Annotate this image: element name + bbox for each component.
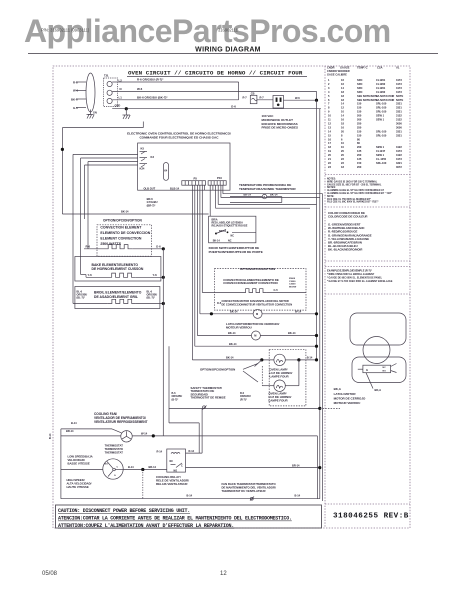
- svg-text:3122: 3122: [396, 114, 402, 118]
- svg-text:WIRING DIAGRAM: WIRING DIAGRAM: [195, 47, 261, 54]
- svg-text:CL1262: CL1262: [376, 82, 386, 86]
- svg-text:125: 125: [357, 157, 362, 161]
- svg-text:3122: 3122: [396, 118, 402, 122]
- svg-text:MOTEUR VERROU: MOTEUR VERROU: [334, 401, 361, 405]
- svg-text:LAMPE FOUR: LAMPE FOUR: [270, 375, 290, 379]
- svg-text:B-14: B-14: [295, 494, 301, 498]
- svg-text:(BL-7)*: (BL-7)*: [147, 297, 155, 300]
- svg-text:Y-6: Y-6: [153, 273, 158, 277]
- svg-text:TEMP.°C: TEMP.°C: [357, 66, 368, 70]
- svg-text:TERMOSTATO: TERMOSTATO: [105, 447, 123, 451]
- svg-text:NOTE:: NOTE:: [327, 196, 334, 198]
- svg-text:K5: K5: [141, 146, 145, 150]
- svg-text:R-6 OR/G/BU (R-7)*: R-6 OR/G/BU (R-7)*: [137, 78, 164, 82]
- svg-text:BR-14: BR-14: [292, 463, 300, 467]
- svg-text:PUERTA/INTERRUPTEUR DE PORTE: PUERTA/INTERRUPTEUR DE PORTE: [209, 250, 263, 254]
- svg-text:P5: P5: [194, 176, 198, 180]
- svg-text:CB: CB: [251, 92, 255, 95]
- svg-text:ELEMENT CONVECTION: ELEMENT CONVECTION: [100, 236, 142, 240]
- svg-text:200: 200: [357, 153, 362, 157]
- svg-text:W-14: W-14: [141, 432, 148, 436]
- svg-text:THERMOSTAT: THERMOSTAT: [105, 444, 124, 448]
- svg-text:CONVECTION ELEMENT: CONVECTION ELEMENT: [100, 226, 142, 230]
- svg-text:COMMANDE FOUR ELECTRONIQUE ED: COMMANDE FOUR ELECTRONIQUE ED CHASIS GAC: [139, 136, 219, 140]
- svg-text:(R-7)*: (R-7)*: [240, 398, 247, 401]
- svg-text:C3000: C3000: [289, 284, 296, 286]
- svg-text:150: 150: [357, 110, 362, 114]
- svg-text:Y-6: Y-6: [88, 273, 93, 277]
- svg-text:3173: 3173: [396, 90, 402, 94]
- svg-text:THERMOSTAT DU VENTILATEUR: THERMOSTAT DU VENTILATEUR: [222, 489, 266, 493]
- svg-text:FILS CDE UL 750 600V EL MARKED: FILS CDE UL 750 600V EL MARKED BT°: [327, 198, 371, 201]
- svg-text:(BL-7)*: (BL-7)*: [77, 297, 85, 300]
- svg-text:M: M: [256, 312, 258, 316]
- svg-text:ELEMENTO DE CONVECCION: ELEMENTO DE CONVECCION: [100, 231, 150, 235]
- svg-text:PRISE DE MICRO-ONDES: PRISE DE MICRO-ONDES: [262, 126, 299, 130]
- svg-text:SRC: SRC: [357, 82, 363, 86]
- svg-text:BK-14: BK-14: [244, 192, 252, 196]
- svg-text:250: 250: [357, 125, 362, 129]
- svg-text:P10: P10: [217, 176, 222, 180]
- svg-text:CONVECTION MOTOR FAN/VENTILADO: CONVECTION MOTOR FAN/VENTILADOR DEL MOTO…: [222, 299, 289, 303]
- svg-text:* GAUGE DE 90C 600V EL. ELEMEN: * GAUGE DE 90C 600V EL. ELEMENTO DE PANE…: [327, 277, 383, 280]
- svg-text:OPTION/OPCION/OPTION: OPTION/OPCION/OPTION: [200, 368, 235, 372]
- svg-text:SEE NOTE/NOTA: SEE NOTE/NOTA: [357, 98, 378, 102]
- svg-text:L1: L1: [119, 95, 123, 99]
- svg-text:200: 200: [357, 145, 362, 149]
- svg-text:G: G: [366, 368, 368, 372]
- svg-text:DE ASADO/ELEMENT GRIL: DE ASADO/ELEMENT GRIL: [94, 295, 138, 299]
- svg-text:R-7: R-7: [260, 96, 265, 100]
- svg-text:2500 WATTS: 2500 WATTS: [100, 242, 121, 246]
- svg-text:200: 200: [357, 165, 362, 169]
- svg-text:OPTION/OPCION/OPTION: OPTION/OPCION/OPTION: [240, 267, 275, 271]
- svg-text:EXAMPLE/EJEMPLO/EXEMPLE (R-7)*: EXAMPLE/EJEMPLO/EXEMPLE (R-7)*: [327, 270, 372, 273]
- svg-text:NC: NC: [228, 240, 232, 243]
- svg-text:25000: 25000: [289, 278, 296, 280]
- svg-text:BK,A: BK,A: [375, 388, 382, 392]
- svg-text:LA NOTA/VOIR: LA NOTA/VOIR: [376, 98, 394, 102]
- svg-text:SRC: SRC: [357, 90, 363, 94]
- svg-text:BK-6 OR/G/BU (BK-7)*: BK-6 OR/G/BU (BK-7)*: [137, 95, 168, 99]
- svg-text:HAUTE VITESSE: HAUTE VITESSE: [67, 485, 89, 489]
- svg-text:NO: NO: [105, 464, 109, 466]
- svg-text:GAUGE SIZE EL 90C FOR BT - 250: GAUGE SIZE EL 90C FOR BT - 250 EL TERMIN…: [327, 183, 382, 186]
- svg-text:150: 150: [357, 106, 362, 110]
- svg-text:NOTES:: NOTES:: [327, 187, 336, 189]
- svg-text:SEW 1: SEW 1: [376, 145, 385, 149]
- svg-text:CND300 WOODER: CND300 WOODER: [327, 69, 350, 73]
- svg-text:THERMOSTAT: THERMOSTAT: [105, 450, 124, 454]
- svg-text:SRL-100: SRL-100: [376, 110, 387, 114]
- svg-text:N: N: [120, 87, 122, 91]
- svg-text:NOTE: NOTE: [396, 98, 403, 102]
- svg-text:RELAIS VENTILATEUR: RELAIS VENTILATEUR: [156, 482, 188, 486]
- svg-text:CL1261: CL1261: [376, 78, 386, 82]
- svg-text:WGTW: WGTW: [289, 286, 297, 288]
- svg-text:R-14: R-14: [189, 449, 195, 453]
- svg-text:M: M: [254, 334, 256, 338]
- svg-text:UL: UL: [396, 66, 400, 70]
- svg-text:3056: 3056: [396, 121, 402, 125]
- svg-text:ALAMBRE GAGE EL STYLE 600V FOR: ALAMBRE GAGE EL STYLE 600V FOR MARKED AT: [327, 189, 384, 192]
- svg-text:250: 250: [357, 121, 362, 125]
- svg-text:G-6: G-6: [231, 104, 236, 108]
- svg-text:WIRE GAUGE IS 16GA FOR 105°C T: WIRE GAUGE IS 16GA FOR 105°C TERMINAL: [327, 180, 378, 183]
- svg-text:SEW 1: SEW 1: [376, 118, 385, 122]
- svg-text:BK,A: BK,A: [334, 387, 342, 391]
- svg-text:3321: 3321: [396, 133, 402, 137]
- svg-text:150: 150: [357, 133, 362, 137]
- svg-text:CNDR: CNDR: [327, 66, 335, 70]
- svg-text:3122: 3122: [396, 153, 402, 157]
- svg-text:NOTES:: NOTES:: [327, 179, 336, 181]
- svg-text:W-6: W-6: [137, 87, 143, 91]
- svg-text:150: 150: [357, 129, 362, 133]
- svg-text:THERMOSTAT DE REMISE: THERMOSTAT DE REMISE: [191, 396, 226, 400]
- svg-text:K24: K24: [140, 166, 145, 170]
- svg-text:318046255 REV:B: 318046255 REV:B: [333, 512, 409, 520]
- svg-text:C-5: C-5: [274, 288, 279, 292]
- svg-text:BROIL ELEMENT/ELEMENTO: BROIL ELEMENT/ELEMENTO: [94, 290, 142, 294]
- svg-text:CONVECCION/ELEMENT CONVECTION: CONVECCION/ELEMENT CONVECTION: [223, 281, 277, 285]
- svg-text:R-6: R-6: [86, 245, 91, 249]
- svg-text:SRL-100: SRL-100: [376, 161, 387, 165]
- svg-text:R-14: R-14: [157, 449, 163, 453]
- svg-text:SEW 1: SEW 1: [376, 114, 385, 118]
- svg-text:150: 150: [357, 102, 362, 106]
- svg-text:ATENCION:CORTAR LA CORRIENTE A: ATENCION:CORTAR LA CORRIENTE ANTES DE RE…: [58, 516, 292, 522]
- svg-text:C3000: C3000: [289, 281, 296, 283]
- svg-text:ALAMBRE GAGE EL STYLE 600V FOR: ALAMBRE GAGE EL STYLE 600V FOR MARKED BT…: [327, 192, 392, 195]
- svg-text:DE CONVECCION/MOTEUR VENTILATE: DE CONVECCION/MOTEUR VENTILATEUR CONVECT…: [222, 302, 293, 306]
- svg-text:BR-14: BR-14: [66, 429, 74, 433]
- svg-text:ROJA/OU ETIQUETTE ROUGE: ROJA/OU ETIQUETTE ROUGE: [212, 225, 248, 228]
- svg-text:LA NOTA/VOIR: LA NOTA/VOIR: [376, 94, 394, 98]
- svg-text:* WIRE USING 600V EL ENROLL EL: * WIRE USING 600V EL ENROLL ELEMENT: [327, 274, 375, 276]
- svg-text:GN: GN: [93, 112, 97, 115]
- svg-text:W-14: W-14: [295, 310, 302, 314]
- svg-text:NO: NO: [174, 469, 178, 472]
- svg-text:CL-1250: CL-1250: [376, 157, 387, 161]
- svg-text:GAGE CALIBRE: GAGE CALIBRE: [327, 73, 347, 77]
- svg-text:OPTION/OPCION/OPTION: OPTION/OPCION/OPTION: [103, 218, 142, 222]
- svg-text:B-14: B-14: [49, 433, 52, 439]
- svg-text:(BR-7)*: (BR-7)*: [147, 203, 156, 207]
- svg-text:K3: K3: [151, 155, 155, 159]
- svg-text:SRL-100: SRL-100: [376, 106, 387, 110]
- svg-text:G: G: [114, 475, 116, 477]
- svg-text:OVEN CIRCUIT // CIRCUITO DE HO: OVEN CIRCUIT // CIRCUITO DE HORNO // CIR…: [128, 70, 303, 77]
- svg-text:BK-14: BK-14: [229, 342, 237, 346]
- svg-text:BK-14: BK-14: [213, 240, 221, 243]
- svg-text:3321: 3321: [396, 110, 402, 114]
- svg-text:SRC: SRC: [357, 86, 363, 90]
- svg-text:316902111: 316902111: [218, 27, 239, 32]
- svg-text:CL1261: CL1261: [376, 86, 386, 90]
- svg-text:CSA: CSA: [377, 66, 383, 70]
- svg-text:LAMPE FOUR: LAMPE FOUR: [269, 399, 289, 403]
- svg-text:P/N: 316902111 (0903111): P/N: 316902111 (0903111): [41, 27, 90, 32]
- svg-text:3321: 3321: [396, 106, 402, 110]
- svg-text:TEMPERATURA/SONDE THERMISTOR: TEMPERATURA/SONDE THERMISTOR: [239, 187, 296, 191]
- svg-text:COLOR/CODE DE COULEUR: COLOR/CODE DE COULEUR: [328, 215, 368, 219]
- svg-text:3321: 3321: [396, 129, 402, 133]
- svg-text:B-14: B-14: [187, 494, 193, 498]
- svg-text:SRL-100: SRL-100: [376, 102, 387, 106]
- svg-text:12: 12: [220, 571, 227, 577]
- svg-text:BAKE ELEMENT/ELEMENTO: BAKE ELEMENT/ELEMENTO: [92, 263, 139, 267]
- svg-text:B-14: B-14: [128, 465, 134, 469]
- svg-text:NOTE: NOTE: [396, 94, 403, 98]
- svg-text:SEE NOTE/NOTA: SEE NOTE/NOTA: [357, 94, 378, 98]
- svg-text:BK.-BLACK/NEGRO/NOIR: BK.-BLACK/NEGRO/NOIR: [328, 248, 362, 252]
- svg-text:CL1247: CL1247: [376, 149, 386, 153]
- svg-text:C: C: [181, 464, 183, 467]
- svg-text:3173: 3173: [396, 149, 402, 153]
- svg-text:G-6: G-6: [156, 245, 161, 249]
- svg-text:MOTEUR VERROU: MOTEUR VERROU: [226, 326, 252, 330]
- svg-text:FILS CDE UL 90C 600V EL MARKED: FILS CDE UL 90C 600V EL MARKED BT° IT.BT…: [327, 201, 379, 204]
- svg-text:ATTENTION:COUPEZ L'ALIMENTATIO: ATTENTION:COUPEZ L'ALIMENTATION AVANT D'…: [58, 523, 234, 529]
- svg-text:125: 125: [357, 149, 362, 153]
- svg-text:R-7: R-7: [243, 96, 248, 100]
- svg-text:BK-14: BK-14: [219, 230, 227, 233]
- svg-text:MOTOR DE CERROJO: MOTOR DE CERROJO: [334, 397, 366, 401]
- svg-text:* GAUGE ET S-TOF AVEC 600C EL.: * GAUGE ET S-TOF AVEC 600C EL. ELEMENT E…: [327, 280, 393, 283]
- svg-text:B-14: B-14: [307, 356, 313, 360]
- svg-text:GND: GND: [115, 104, 121, 108]
- svg-text:CL1262: CL1262: [376, 90, 386, 94]
- svg-text:3173: 3173: [396, 157, 402, 161]
- svg-text:T.B.: T.B.: [104, 74, 109, 78]
- svg-text:(B-7)*: (B-7)*: [172, 398, 179, 401]
- svg-text:SEW 1: SEW 1: [376, 153, 385, 157]
- svg-text:150: 150: [357, 161, 362, 165]
- svg-text:05/08: 05/08: [42, 571, 58, 577]
- svg-text:3122: 3122: [396, 145, 402, 149]
- svg-text:3173: 3173: [396, 86, 402, 90]
- svg-text:BK-14: BK-14: [230, 310, 238, 314]
- svg-text:GAUGE: GAUGE: [340, 66, 350, 70]
- svg-text:NO: NO: [383, 371, 387, 373]
- svg-text:BK-14: BK-14: [288, 331, 296, 335]
- svg-text:B-14: B-14: [71, 421, 77, 425]
- svg-text:BK-14: BK-14: [270, 192, 278, 196]
- svg-text:BK-14: BK-14: [228, 331, 236, 335]
- svg-text:BK-14: BK-14: [121, 210, 129, 214]
- svg-text:SRL-100: SRL-100: [376, 129, 387, 133]
- svg-text:LATCH MOTOR: LATCH MOTOR: [334, 392, 357, 396]
- svg-text:BLB-14: BLB-14: [170, 186, 180, 190]
- svg-text:200: 200: [357, 114, 362, 118]
- svg-text:VENTILATEUR REFROIDISSEMENT: VENTILATEUR REFROIDISSEMENT: [94, 420, 148, 424]
- svg-text:NC: NC: [383, 367, 387, 369]
- svg-text:CAUTION: DISCONNECT POWER BEFO: CAUTION: DISCONNECT POWER BEFORE SERVICI…: [58, 508, 190, 514]
- svg-text:3056: 3056: [396, 125, 402, 129]
- svg-text:200: 200: [357, 118, 362, 122]
- svg-text:3173: 3173: [396, 78, 402, 82]
- svg-text:OLB OUT: OLB OUT: [144, 186, 156, 190]
- svg-text:BR-14: BR-14: [149, 465, 157, 469]
- svg-text:W-6: W-6: [295, 96, 300, 100]
- svg-text:SRL-100: SRL-100: [376, 133, 387, 137]
- svg-text:3173: 3173: [396, 82, 402, 86]
- svg-text:DE HORNO/ELEMENT CUISSON: DE HORNO/ELEMENT CUISSON: [92, 267, 144, 271]
- svg-text:SRC: SRC: [357, 78, 363, 82]
- svg-text:NC: NC: [231, 235, 235, 238]
- svg-text:BASSE VITESSE: BASSE VITESSE: [68, 461, 90, 465]
- svg-text:3321: 3321: [396, 161, 402, 165]
- svg-text:3072: 3072: [396, 165, 402, 169]
- svg-text:NC: NC: [170, 460, 174, 463]
- svg-text:BK-14: BK-14: [226, 356, 234, 360]
- svg-text:3321: 3321: [396, 102, 402, 106]
